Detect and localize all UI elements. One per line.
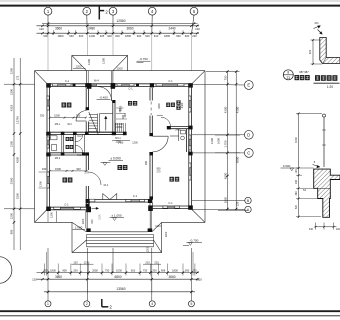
eave detail dim line bbox=[309, 39, 322, 65]
parapet slope arrow bbox=[313, 160, 321, 168]
svg-text:1030: 1030 bbox=[116, 269, 122, 273]
parapet bottom dims bbox=[309, 223, 340, 231]
room label bed1 bbox=[62, 103, 72, 108]
svg-text:120: 120 bbox=[39, 27, 44, 31]
svg-text:1200: 1200 bbox=[210, 138, 214, 144]
svg-text:12560: 12560 bbox=[116, 19, 125, 23]
svg-text:2%: 2% bbox=[314, 21, 319, 25]
svg-text:120: 120 bbox=[73, 260, 78, 264]
svg-text:1480: 1480 bbox=[118, 142, 124, 145]
dimension line top axis spans bbox=[37, 25, 201, 31]
window C-1 south kitchen bbox=[54, 207, 61, 209]
staircase treads east flight bbox=[116, 123, 126, 132]
room label dining bbox=[166, 103, 175, 107]
svg-text:1500: 1500 bbox=[54, 114, 60, 118]
svg-text:2440: 2440 bbox=[168, 27, 175, 31]
bath room label upper bbox=[66, 137, 74, 141]
bath north wall bbox=[48, 132, 115, 135]
staircase treads west flight bbox=[89, 115, 98, 132]
svg-text:1200: 1200 bbox=[89, 34, 95, 38]
svg-text:320: 320 bbox=[76, 114, 81, 118]
right dimension line outer bbox=[235, 70, 240, 210]
bath fixtures bbox=[51, 136, 58, 151]
svg-text:230: 230 bbox=[192, 34, 197, 38]
grid bubble 1 bottom bbox=[45, 301, 51, 307]
svg-text:1200: 1200 bbox=[87, 59, 91, 65]
svg-text:1200: 1200 bbox=[82, 218, 85, 224]
svg-text:E: E bbox=[247, 83, 250, 88]
staircase annotation text bbox=[115, 105, 127, 129]
svg-text:330: 330 bbox=[40, 114, 45, 118]
svg-text:325: 325 bbox=[100, 34, 105, 38]
east room south wall bbox=[167, 126, 189, 129]
south wall east wing bbox=[150, 206, 191, 209]
svg-text:1500: 1500 bbox=[9, 89, 13, 95]
overall dimension line top 12560 bbox=[42, 19, 198, 25]
porch dims small bbox=[48, 211, 168, 252]
svg-text:± 1.000: ± 1.000 bbox=[111, 213, 122, 217]
svg-text:210: 210 bbox=[145, 260, 150, 264]
small window box west porch bbox=[89, 199, 95, 202]
callout bold label bbox=[295, 75, 310, 80]
svg-text:3660: 3660 bbox=[55, 27, 62, 31]
bath door arc 1 bbox=[75, 134, 82, 141]
bath partition vertical east bbox=[74, 134, 76, 152]
svg-text:1800: 1800 bbox=[164, 34, 170, 38]
bottom porch hip diagonals bbox=[72, 222, 162, 252]
svg-text:M3-2: M3-2 bbox=[55, 157, 61, 160]
svg-text:750: 750 bbox=[223, 75, 227, 80]
svg-text:4: 4 bbox=[151, 302, 153, 306]
grid bubble 2 bottom bbox=[84, 301, 90, 307]
svg-text:1200: 1200 bbox=[9, 212, 13, 219]
bath corridor wall bbox=[84, 134, 86, 152]
svg-text:1: 1 bbox=[47, 302, 49, 306]
svg-text:200: 200 bbox=[91, 219, 94, 224]
svg-text:600: 600 bbox=[79, 34, 84, 38]
svg-text:908: 908 bbox=[62, 269, 67, 273]
svg-text:6800: 6800 bbox=[114, 275, 121, 279]
bath partition vertical west bbox=[62, 134, 64, 152]
svg-text:600: 600 bbox=[145, 34, 150, 38]
parapet rail post bbox=[322, 114, 326, 167]
svg-text:600: 600 bbox=[115, 34, 120, 38]
room label hall bbox=[128, 101, 137, 106]
svg-text:730: 730 bbox=[143, 269, 148, 273]
svg-text:M-4: M-4 bbox=[94, 79, 99, 83]
svg-text:5360: 5360 bbox=[9, 177, 13, 184]
main roof overhang outline bbox=[35, 71, 206, 223]
grid bubble 2 top bbox=[83, 7, 91, 15]
svg-text:2: 2 bbox=[86, 302, 88, 306]
top porch dims bbox=[73, 57, 151, 70]
svg-text:13560: 13560 bbox=[116, 287, 125, 291]
grid bubble 5 top bbox=[190, 7, 198, 15]
svg-text:4200: 4200 bbox=[236, 106, 240, 113]
svg-text:930: 930 bbox=[69, 34, 74, 38]
door gap dashes grid4 bbox=[150, 102, 152, 116]
top porch roof outline bbox=[72, 55, 128, 83]
bath room label lower bbox=[66, 145, 74, 149]
entrance steps bbox=[87, 232, 154, 247]
room label bed2 vertical bbox=[176, 100, 180, 109]
svg-text:4200: 4200 bbox=[223, 106, 227, 113]
svg-text:4318: 4318 bbox=[9, 104, 13, 111]
svg-text:910: 910 bbox=[154, 34, 159, 38]
south east columns bbox=[188, 205, 193, 209]
east wall columns bbox=[188, 126, 192, 156]
grid bubble 5 bottom bbox=[188, 301, 194, 307]
porch side walls bbox=[86, 209, 152, 228]
svg-text:900: 900 bbox=[107, 34, 112, 38]
parapet level mark 3.600 bbox=[281, 164, 314, 171]
grid lines to roof bbox=[48, 34, 191, 71]
svg-text:380: 380 bbox=[295, 191, 298, 196]
svg-text:1200: 1200 bbox=[76, 65, 82, 69]
parapet inner line bbox=[318, 187, 331, 189]
svg-text:4500: 4500 bbox=[223, 172, 227, 179]
svg-text:200: 200 bbox=[152, 269, 157, 273]
north wall columns bbox=[46, 83, 193, 89]
grid bubble 4 top bbox=[148, 7, 156, 15]
grid bubble 3 top bbox=[109, 7, 117, 15]
svg-text:1000: 1000 bbox=[294, 137, 298, 143]
grid extension lines bottom bbox=[48, 248, 191, 293]
porch arrow bbox=[92, 207, 99, 209]
staircase well lines bbox=[98, 114, 113, 134]
svg-text:910: 910 bbox=[131, 269, 136, 273]
svg-text:1.750: 1.750 bbox=[223, 140, 227, 147]
left wall leader ticks bbox=[4, 84, 35, 209]
window east bed2 bbox=[189, 96, 191, 100]
svg-text:200: 200 bbox=[295, 179, 298, 184]
eave detail wall section bbox=[320, 38, 340, 64]
parapet dim column bbox=[294, 113, 322, 219]
svg-text:± 0.000: ± 0.000 bbox=[110, 157, 121, 161]
svg-text:930: 930 bbox=[137, 34, 142, 38]
svg-text:930: 930 bbox=[43, 34, 48, 38]
svg-text:1:20: 1:20 bbox=[327, 85, 333, 89]
svg-text:120: 120 bbox=[236, 201, 240, 206]
svg-text:C-1: C-1 bbox=[128, 87, 133, 91]
svg-text:3660: 3660 bbox=[168, 275, 175, 279]
detail callout bubble bbox=[283, 70, 293, 80]
svg-text:120: 120 bbox=[195, 27, 200, 31]
kitchen east wall bbox=[86, 152, 89, 207]
wall grid4 hall east bbox=[149, 88, 153, 136]
room label kitchen bbox=[63, 178, 73, 183]
svg-text:1200: 1200 bbox=[50, 212, 54, 218]
window west bed1 bbox=[47, 96, 49, 100]
svg-text:1800: 1800 bbox=[125, 34, 131, 38]
east rooms partition bbox=[187, 129, 189, 152]
svg-text:1200: 1200 bbox=[147, 246, 150, 252]
room label bed3 bbox=[170, 177, 180, 182]
svg-text:1800: 1800 bbox=[172, 269, 178, 273]
svg-text:330: 330 bbox=[42, 167, 47, 171]
bath door arc 2 bbox=[75, 145, 82, 152]
porch level text 1.000 bbox=[73, 226, 85, 230]
bath dim line bbox=[42, 167, 89, 175]
svg-text:930: 930 bbox=[185, 269, 190, 273]
labels bath doors bbox=[55, 123, 122, 160]
bay side jogs bbox=[87, 202, 152, 207]
svg-text:1800: 1800 bbox=[58, 34, 64, 38]
svg-text:-6.750: -6.750 bbox=[139, 57, 148, 61]
svg-text:C-1: C-1 bbox=[65, 79, 70, 83]
svg-text:120: 120 bbox=[197, 277, 202, 281]
svg-text:2100: 2100 bbox=[9, 140, 13, 147]
svg-text:120: 120 bbox=[32, 277, 37, 281]
kitchen door arc bbox=[89, 172, 102, 185]
svg-text:220: 220 bbox=[154, 260, 159, 264]
parapet wall section bbox=[314, 169, 340, 217]
window north hall left bbox=[92, 84, 93, 86]
svg-text:100: 100 bbox=[336, 228, 340, 231]
svg-text:1500: 1500 bbox=[99, 214, 102, 220]
svg-text:D: D bbox=[247, 132, 250, 137]
detail title eave tile bbox=[314, 75, 340, 89]
svg-text:1230: 1230 bbox=[84, 260, 90, 264]
svg-text:1200: 1200 bbox=[39, 181, 43, 187]
left dimension line inner bbox=[15, 58, 21, 250]
grid bubble 4 bottom bbox=[149, 301, 155, 307]
svg-text:M3-1: M3-1 bbox=[55, 123, 61, 126]
svg-text:1200: 1200 bbox=[9, 67, 13, 74]
left dimension line outer bbox=[9, 58, 15, 250]
svg-text:930: 930 bbox=[176, 34, 181, 38]
dimension line bottom detail spans bbox=[37, 269, 200, 274]
svg-text:C-1: C-1 bbox=[133, 194, 138, 198]
porch column small dims text bbox=[72, 260, 162, 264]
bath south wall bbox=[48, 152, 86, 155]
slope arrow top-right detail bbox=[314, 21, 323, 34]
svg-text:2420: 2420 bbox=[181, 102, 184, 108]
svg-text:1.000: 1.000 bbox=[75, 226, 83, 230]
bottom porch overhang outline bbox=[72, 222, 162, 252]
svg-text:M-1: M-1 bbox=[104, 183, 109, 187]
svg-text:300: 300 bbox=[122, 114, 125, 119]
sheet bottom border thick bbox=[0, 310, 340, 312]
dining dims bbox=[145, 102, 184, 173]
svg-text:3660: 3660 bbox=[126, 27, 133, 31]
wall grid3 stair east bbox=[112, 100, 115, 133]
living east wall bbox=[149, 152, 153, 200]
section mark 2 top bbox=[99, 6, 108, 20]
kitchen west window dim bbox=[39, 172, 47, 188]
svg-text:900: 900 bbox=[9, 229, 13, 234]
window south center bbox=[126, 200, 131, 202]
svg-text:C-1: C-1 bbox=[168, 201, 173, 205]
dimension line bottom axis spans bbox=[32, 275, 202, 281]
svg-text:23: 23 bbox=[287, 76, 291, 80]
svg-text:2550: 2550 bbox=[92, 269, 98, 273]
svg-text:175: 175 bbox=[15, 75, 19, 80]
double door M-1 bbox=[103, 194, 117, 200]
north detail circle bottom-left bbox=[0, 257, 12, 284]
level mark -0.450 bbox=[97, 95, 111, 99]
svg-text:1800: 1800 bbox=[50, 269, 56, 273]
section mark 2 bottom bbox=[102, 299, 113, 310]
grid bubble C right bbox=[192, 149, 253, 158]
svg-text:908: 908 bbox=[161, 269, 166, 273]
hall to bed3 door arc bbox=[152, 136, 168, 152]
svg-text:12796: 12796 bbox=[15, 116, 19, 124]
overall dimension line bottom 13560 bbox=[44, 273, 195, 301]
svg-text:900: 900 bbox=[145, 160, 148, 165]
west wall columns bbox=[46, 132, 50, 157]
svg-text:6000: 6000 bbox=[236, 156, 240, 163]
sheet bottom border thin bbox=[0, 315, 340, 317]
svg-text:8: 8 bbox=[287, 71, 289, 75]
window east bed3 bbox=[189, 163, 191, 168]
svg-text:C-1: C-1 bbox=[168, 79, 173, 83]
center bay columns bbox=[86, 199, 153, 203]
right leader lines bbox=[206, 72, 248, 211]
svg-text:100: 100 bbox=[295, 169, 298, 174]
window C-1 south bed3 bbox=[163, 206, 168, 208]
svg-text:230: 230 bbox=[192, 269, 197, 273]
svg-text:-0.750: -0.750 bbox=[190, 238, 199, 242]
hall dim line south bbox=[112, 140, 138, 144]
svg-text:730: 730 bbox=[105, 269, 110, 273]
window west kitchen bbox=[47, 172, 49, 176]
svg-text:5: 5 bbox=[190, 302, 192, 306]
svg-text:930: 930 bbox=[43, 269, 48, 273]
svg-text:1200: 1200 bbox=[117, 67, 123, 71]
svg-text:340: 340 bbox=[309, 228, 314, 231]
svg-text:C-1: C-1 bbox=[64, 203, 69, 207]
room label living bbox=[118, 165, 128, 170]
entry level text bbox=[110, 213, 125, 220]
dimension line top detail spans bbox=[37, 30, 200, 38]
sheet top border thick bbox=[0, 5, 340, 7]
north wall bbox=[48, 84, 192, 87]
svg-text:270: 270 bbox=[84, 170, 89, 174]
window C-1 north bed2 bbox=[156, 84, 163, 86]
extension stubs bottom bbox=[45, 252, 195, 276]
grid bubble A right bbox=[192, 206, 251, 212]
svg-text:-0.450: -0.450 bbox=[99, 95, 108, 99]
svg-text:W-2: W-2 bbox=[67, 123, 72, 126]
bed2 door arc bbox=[161, 117, 171, 126]
grid bubble D right bbox=[192, 130, 253, 139]
left extra dim texts bbox=[9, 89, 19, 235]
svg-text:200: 200 bbox=[73, 269, 78, 273]
right dimension line inner bbox=[223, 70, 228, 210]
sheet top border thin bbox=[0, 0, 340, 2]
roof hip diagonals bbox=[35, 71, 206, 223]
staircase up arrow bbox=[105, 116, 108, 131]
svg-text:3.600: 3.600 bbox=[283, 164, 291, 168]
south west columns bbox=[46, 207, 51, 211]
svg-text:1800: 1800 bbox=[223, 196, 227, 203]
grid bubble 1 top bbox=[44, 7, 52, 15]
window C-1 north bed1 bbox=[53, 84, 58, 86]
level mark 0.000 bbox=[101, 157, 124, 166]
stair bottom wall bbox=[86, 132, 126, 135]
svg-text:2480: 2480 bbox=[88, 27, 95, 31]
svg-text:2420: 2420 bbox=[175, 129, 181, 132]
svg-text:1200: 1200 bbox=[132, 142, 138, 145]
south wall west wing bbox=[48, 207, 90, 210]
se toilet walls bbox=[170, 129, 186, 141]
hall small dims bbox=[116, 108, 127, 119]
east wall bbox=[189, 84, 192, 209]
window C-1 north dining bbox=[117, 84, 122, 86]
svg-text:1800: 1800 bbox=[158, 103, 161, 109]
bed1 door arc bbox=[76, 111, 86, 121]
window west bath bbox=[47, 137, 49, 140]
svg-text:420: 420 bbox=[309, 49, 312, 54]
svg-text:5360: 5360 bbox=[15, 192, 19, 199]
svg-text:520: 520 bbox=[295, 204, 298, 209]
porch columns bbox=[86, 205, 153, 232]
grid bubble B right bbox=[192, 197, 251, 203]
svg-text:3660: 3660 bbox=[55, 275, 62, 279]
svg-text:C: C bbox=[247, 150, 250, 155]
south wall center bay bbox=[87, 200, 152, 203]
svg-text:1210: 1210 bbox=[155, 225, 161, 228]
west wall bbox=[47, 84, 50, 209]
svg-text:4200: 4200 bbox=[15, 157, 19, 163]
window east dining bbox=[189, 135, 191, 139]
grid extension lines top bbox=[48, 15, 194, 34]
svg-text:1200: 1200 bbox=[102, 58, 106, 64]
wall grid2 bed1 east bbox=[86, 88, 89, 133]
svg-text:1000: 1000 bbox=[217, 138, 221, 144]
ground level text -0.750 bbox=[183, 238, 202, 245]
staircase break line bbox=[89, 112, 99, 135]
svg-text:1500: 1500 bbox=[55, 167, 61, 171]
svg-text:270: 270 bbox=[157, 171, 162, 174]
svg-text:300: 300 bbox=[119, 108, 122, 113]
bed1 dim line bbox=[40, 114, 87, 119]
entry door M-4 arc bbox=[98, 87, 111, 101]
svg-text:900: 900 bbox=[76, 167, 81, 171]
svg-text:600: 600 bbox=[185, 34, 190, 38]
svg-text:1200: 1200 bbox=[165, 231, 168, 237]
svg-text:987,987: 987,987 bbox=[299, 70, 309, 74]
grid bubble E right bbox=[192, 81, 253, 90]
